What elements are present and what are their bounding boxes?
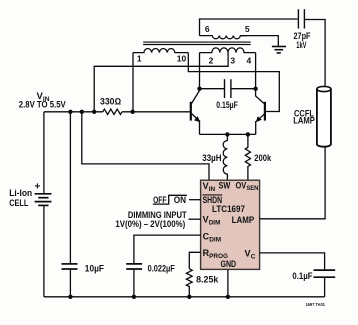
- transformer winding T1 2-4: [200, 48, 256, 53]
- wire pin10 down and right to Q2 base loop: [188, 53, 279, 112]
- OFF/ON step annotation: [153, 195, 187, 204]
- junction gnd/10uF: [68, 295, 72, 299]
- arrow Q2 emitter: [256, 116, 262, 122]
- svg-text:C: C: [251, 253, 256, 260]
- svg-text:+: +: [35, 182, 41, 193]
- arrow Q1 emitter: [194, 116, 200, 122]
- junction VIN/IC-VIN wire: [80, 110, 84, 114]
- wire pin3 center tap to VIN node: [94, 53, 228, 112]
- battery Li-Ion cell: [43, 112, 45, 194]
- svg-text:1kV: 1kV: [296, 40, 306, 50]
- LAMP wire to lamp: [260, 146, 326, 219]
- svg-text:6: 6: [205, 24, 210, 34]
- emitter rail: [200, 133, 256, 135]
- junction gnd/0.022uF: [132, 295, 136, 299]
- wire 27pF to lamp top: [304, 20, 325, 87]
- svg-text:10µF: 10µF: [85, 263, 105, 273]
- svg-text:3: 3: [230, 56, 235, 66]
- svg-text:200k: 200k: [254, 153, 272, 163]
- capacitor 10uF: [69, 112, 71, 264]
- svg-text:IN: IN: [209, 186, 216, 193]
- junction emitters/200k: [246, 132, 250, 136]
- wire pin1 down to 330 node: [132, 53, 134, 112]
- svg-text:SEN: SEN: [246, 185, 258, 192]
- CDIM wire to 0.022uF: [134, 235, 201, 263]
- resistor 8.25k: [186, 269, 192, 297]
- wire VIN node down to IC VIN pin: [82, 112, 209, 180]
- junction VIN/center-tap: [92, 110, 96, 114]
- wire pin2 down to Q1 collector: [199, 53, 201, 89]
- svg-text:ON: ON: [174, 195, 186, 205]
- junction gnd/IC GND: [226, 295, 230, 299]
- inductor 33uH: [223, 134, 227, 180]
- svg-text:33µH: 33µH: [202, 153, 221, 163]
- CCFL lamp tube: [317, 89, 331, 147]
- svg-text:Li-Ion: Li-Ion: [9, 188, 32, 198]
- svg-text:CELL: CELL: [9, 198, 28, 208]
- transistor Q1: [190, 102, 192, 121]
- junction gnd/8.25k: [187, 295, 191, 299]
- capacitor 0.15uF: [200, 88, 256, 90]
- svg-text:OFF: OFF: [153, 195, 167, 205]
- svg-text:10: 10: [177, 53, 187, 63]
- svg-text:DIM: DIM: [209, 220, 221, 227]
- wire VIN rail: [44, 111, 103, 113]
- ground: [272, 47, 286, 53]
- junction VIN/10uF: [68, 110, 72, 114]
- RPROG wire: [189, 252, 200, 268]
- svg-text:OV: OV: [236, 180, 247, 190]
- svg-text:330Ω: 330Ω: [100, 96, 121, 106]
- IC U1 LTC1697: [201, 180, 260, 269]
- wire pin5 to ground: [240, 36, 278, 47]
- resistor 200k: [245, 134, 250, 180]
- junction Q2 collector: [253, 87, 257, 91]
- transformer core: [143, 42, 251, 44]
- wire top loop pin6 to 27pF: [200, 19, 298, 36]
- svg-text:GND: GND: [221, 259, 237, 269]
- svg-text:1V(0%) – 2V(100%): 1V(0%) – 2V(100%): [115, 219, 185, 229]
- svg-text:LAMP: LAMP: [232, 215, 255, 225]
- svg-text:1: 1: [137, 53, 142, 63]
- GND stub: [227, 269, 229, 296]
- capacitor 27pF: [298, 9, 304, 28]
- transistor Q2: [264, 102, 266, 121]
- svg-text:8.25k: 8.25k: [196, 274, 219, 284]
- wire 330 to Q1 base: [122, 111, 191, 113]
- pin numbers T1: [137, 24, 252, 66]
- junction Q1 collector: [197, 87, 201, 91]
- svg-text:0.15µF: 0.15µF: [216, 100, 238, 110]
- svg-text:1697 TA01: 1697 TA01: [306, 302, 326, 308]
- svg-text:V: V: [245, 249, 251, 259]
- ground rail: [44, 296, 325, 298]
- svg-text:4: 4: [247, 56, 252, 66]
- svg-text:DIM: DIM: [209, 237, 221, 244]
- junction 330/pin1/Q1 base: [130, 110, 134, 114]
- capacitor 0.1uF: [314, 270, 336, 277]
- transformer winding T1 1-10: [133, 49, 188, 53]
- resistor 330ohm: [103, 109, 122, 114]
- wire pin4 down to Q2 collector: [255, 53, 257, 89]
- capacitor 0.022uF: [126, 264, 142, 269]
- SHDN stub: [189, 199, 201, 201]
- node VIN label: [9, 24, 325, 308]
- VDIM stub: [189, 218, 201, 220]
- svg-text:LTC1697: LTC1697: [212, 204, 245, 214]
- svg-text:2: 2: [209, 56, 214, 66]
- svg-text:2.8V TO 5.5V: 2.8V TO 5.5V: [19, 100, 66, 110]
- IC pin labels: [202, 180, 258, 269]
- transformer winding T1 6-5 (top): [200, 36, 248, 39]
- svg-text:LAMP: LAMP: [293, 116, 315, 126]
- svg-text:0.1µF: 0.1µF: [292, 271, 313, 281]
- VC wire to 0.1uF: [260, 253, 325, 270]
- junction emitters/33uH: [225, 132, 229, 136]
- svg-text:0.022µF: 0.022µF: [148, 263, 176, 273]
- svg-text:SW: SW: [219, 180, 231, 190]
- svg-text:5: 5: [245, 24, 250, 34]
